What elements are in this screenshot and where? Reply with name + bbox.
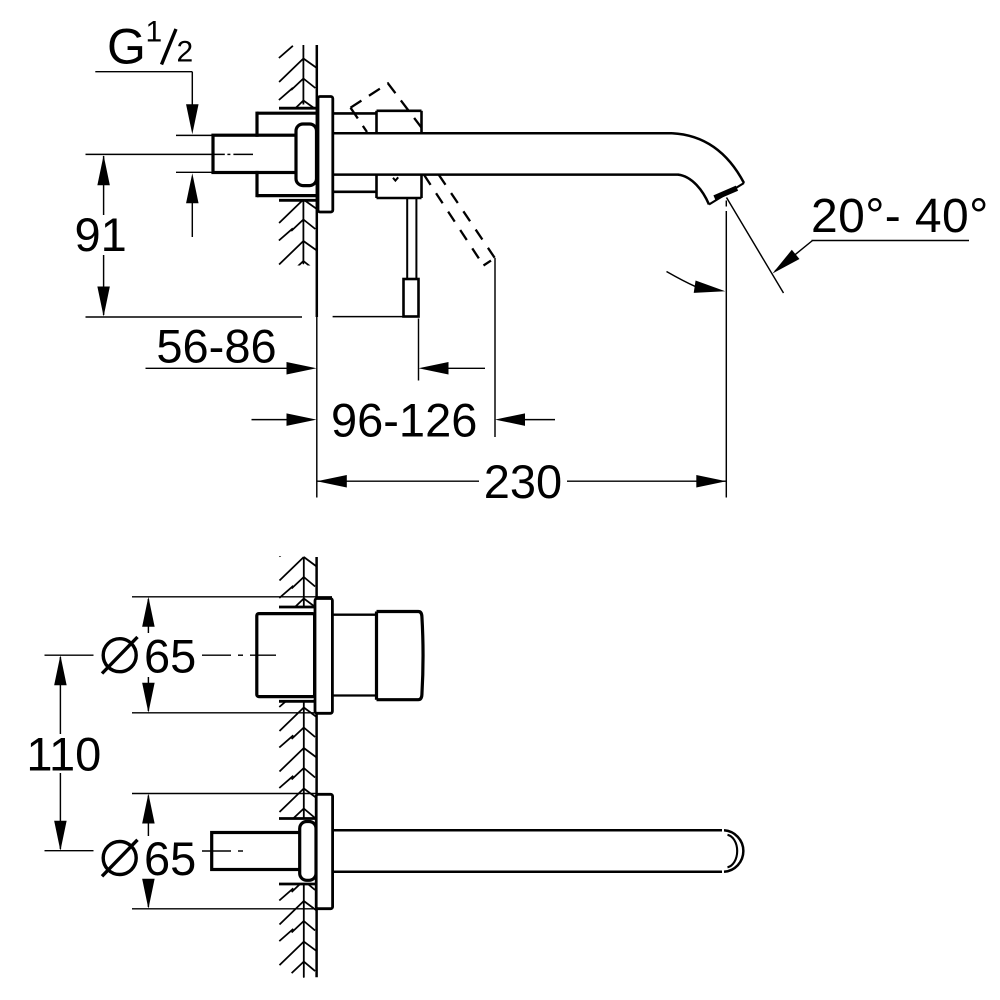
svg-text:91: 91: [75, 208, 127, 261]
svg-text:65: 65: [144, 630, 196, 683]
svg-text:96-126: 96-126: [331, 394, 477, 447]
svg-text:230: 230: [484, 455, 562, 508]
svg-text:2: 2: [177, 35, 194, 68]
svg-text:56-86: 56-86: [156, 320, 276, 373]
svg-text:20°- 40°: 20°- 40°: [811, 190, 989, 243]
svg-text:G: G: [107, 18, 146, 74]
svg-text:110: 110: [26, 728, 101, 781]
svg-text:65: 65: [144, 832, 196, 885]
svg-text:1: 1: [146, 16, 163, 49]
